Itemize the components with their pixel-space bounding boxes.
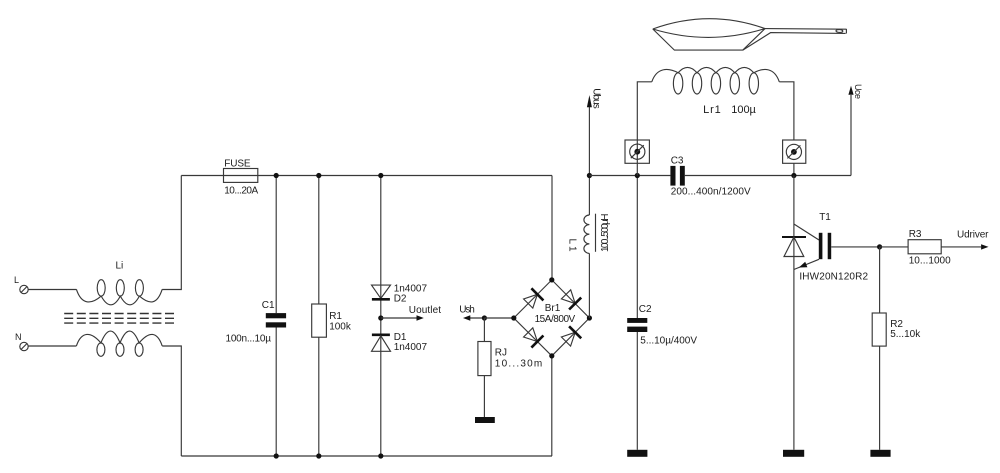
svg-text:IHW20N120R2: IHW20N120R2 (799, 272, 868, 283)
svg-text:Ush: Ush (459, 304, 475, 315)
node D branch bottom (378, 453, 383, 458)
arrow Uoutlet (381, 315, 424, 320)
svg-text:100...500µH: 100...500µH (600, 214, 611, 253)
node C2 top (635, 173, 640, 178)
svg-text:C3: C3 (671, 156, 684, 167)
node Ubus (587, 173, 592, 178)
svg-text:D2: D2 (394, 294, 407, 305)
node R1 top (316, 173, 321, 178)
svg-text:15A/800V: 15A/800V (535, 314, 576, 325)
svg-text:1n4007: 1n4007 (394, 342, 428, 353)
resistor R3 (880, 240, 981, 254)
wire bridge bottom to bottom rail (551, 356, 553, 456)
capacitor C2 (627, 176, 647, 450)
arrow Ubus (587, 95, 592, 175)
wire L to choke (28, 289, 76, 291)
arrow Udriver (981, 244, 988, 249)
svg-text:Uoutlet: Uoutlet (409, 305, 441, 316)
svg-text:Udriver: Udriver (957, 229, 989, 240)
pan handle (743, 29, 847, 50)
pan body (653, 19, 765, 50)
svg-text:100µ: 100µ (731, 104, 756, 116)
node Ush (482, 315, 487, 320)
resistor R2 (872, 247, 886, 450)
wire choke top to fuse rail (162, 176, 181, 290)
diode D2 (372, 285, 391, 299)
svg-text:Li: Li (116, 261, 124, 272)
svg-text:L: L (14, 275, 19, 285)
bridge diode Br1-1 (524, 288, 544, 308)
wire diode branch (380, 176, 382, 457)
node bridge bottom (549, 353, 554, 358)
wire C3 to right (685, 175, 851, 177)
svg-text:100k: 100k (329, 322, 352, 333)
transistor T1 (IGBT) (794, 176, 831, 450)
choke Li winding bottom (76, 331, 162, 356)
wire top rail left (181, 175, 552, 177)
node bridge top (549, 277, 554, 282)
fuse FUSE (224, 169, 258, 183)
arrow Ush (463, 315, 484, 320)
capacitor C3 (670, 166, 684, 186)
label 100...500uH line (595, 214, 597, 252)
resistor R1 (312, 176, 327, 457)
svg-text:100n...10µ: 100n...10µ (226, 333, 272, 344)
svg-text:R1: R1 (329, 311, 342, 322)
node gate (877, 244, 882, 249)
wire sensor left up to Lr1 (637, 82, 652, 140)
bottom rail (181, 455, 552, 457)
svg-text:200...400n/1200V: 200...400n/1200V (671, 186, 751, 197)
inductor L1 (584, 176, 590, 319)
svg-text:10...20A: 10...20A (224, 186, 258, 197)
diode D1 (372, 335, 391, 352)
terminal N (20, 342, 28, 350)
wire rail to Uce (850, 95, 852, 176)
node bridge right (587, 315, 592, 320)
choke Li core (64, 314, 174, 324)
svg-text:C1: C1 (262, 300, 275, 311)
svg-text:5...10µ/400V: 5...10µ/400V (640, 335, 697, 346)
terminal L (20, 285, 28, 293)
arrow Uce (848, 86, 853, 95)
wire gate (831, 246, 879, 248)
wire top rail right (589, 175, 670, 177)
svg-text:C2: C2 (639, 304, 652, 315)
wire Ush node to bridge (484, 317, 513, 319)
bridge diode Br1-2 (561, 290, 581, 310)
svg-text:Uce: Uce (853, 84, 863, 99)
ground T1 (783, 450, 804, 457)
svg-text:Ubus: Ubus (591, 88, 602, 109)
current sensor right (783, 140, 806, 176)
inductor Lr1 (652, 67, 780, 94)
wire top rail to bridge top (551, 176, 553, 280)
ground R2 (870, 450, 890, 457)
svg-text:Lr1: Lr1 (703, 104, 721, 116)
svg-text:RJ: RJ (495, 347, 507, 358)
svg-text:N: N (15, 332, 22, 342)
node R1 bottom (316, 453, 321, 458)
svg-text:T1: T1 (819, 212, 831, 223)
current sensor left (625, 140, 649, 176)
resistor RJ (478, 318, 491, 417)
wire Lr1 right down (779, 82, 794, 140)
svg-text:5...10k: 5...10k (890, 329, 921, 340)
diode T1 freewheel (782, 237, 806, 257)
bridge Br1 frame (514, 280, 590, 356)
ground C2 (627, 450, 647, 457)
svg-text:Br1: Br1 (545, 303, 561, 314)
svg-text:R3: R3 (909, 229, 922, 240)
svg-text:10...30m: 10...30m (495, 359, 542, 370)
svg-text:FUSE: FUSE (224, 158, 251, 169)
node C1 bottom (274, 453, 279, 458)
svg-text:10...1000: 10...1000 (909, 256, 951, 267)
node D branch top (378, 173, 383, 178)
svg-text:L1: L1 (567, 239, 578, 252)
bridge diode Br1-3 (524, 328, 544, 348)
capacitor C1 (266, 176, 286, 457)
choke Li winding top (76, 280, 162, 305)
node Uoutlet (378, 315, 383, 320)
ground RJ (475, 417, 495, 423)
node collector rail (791, 173, 796, 178)
node bridge left (511, 315, 516, 320)
node C1 top (274, 173, 279, 178)
bridge diode Br1-4 (561, 326, 581, 346)
wire N to choke (28, 345, 76, 347)
wire choke bottom to bottom rail (162, 346, 181, 456)
